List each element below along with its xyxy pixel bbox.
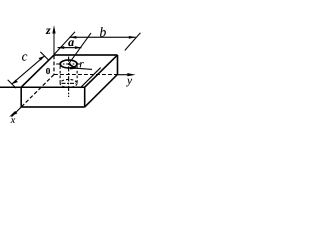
hole hidden left side [59,66,61,83]
dimension a right arrowhead [75,46,82,49]
block bottom-right edge [85,74,118,107]
block back-top edge [54,54,118,56]
svg-text:a: a [68,35,74,49]
dimension c line [12,56,45,84]
radius r leader line [69,64,76,68]
dimension a left arrowhead [58,46,65,49]
block back-right vertical edge [117,55,119,74]
svg-text:y: y [126,75,133,87]
x-axis hidden segment (bottom-left edge) [21,75,54,108]
diagonal line near right face [80,68,100,88]
z-axis arrowhead [52,26,55,34]
dimension c lower arrowhead [12,80,18,84]
hole bottom horizontal center line [62,82,77,84]
z-axis solid shaft [53,31,55,55]
block top-right edge [85,55,118,87]
svg-text:z: z [45,23,51,37]
svg-text:c: c [22,48,28,63]
svg-text:b: b [100,25,107,40]
hole vertical center line [68,57,70,97]
svg-text:0: 0 [46,66,51,76]
y-axis solid shaft [118,74,131,76]
dimension c upper arrowhead [39,56,45,61]
hole hidden right side [76,66,78,83]
hole hidden bottom ellipse [60,79,77,87]
block top-left edge [21,55,54,87]
radius r arrowhead [70,67,77,70]
dimension c bottom extension tick [8,80,16,88]
dimension b line [69,36,135,38]
dimension a line [58,47,82,49]
y-axis hidden segment (back-bottom edge) [54,74,118,76]
dimension b right extension line [125,33,141,51]
block front-right vertical edge [84,87,86,107]
block front-top edge (extends to left border) [0,86,85,88]
svg-text:x: x [10,115,16,126]
radius r leader tail [76,68,92,69]
hole top ellipse [60,60,77,68]
hole horizontal center line [56,63,80,65]
svg-text:r: r [79,58,84,70]
block front-left vertical edge [20,87,22,107]
x-axis solid shaft [12,107,22,117]
x-axis arrowhead [9,111,17,117]
dimension c top extension tick [40,52,48,60]
dimension a extension line from corner [54,32,75,55]
dimension a extension line from hole center [69,33,91,64]
dimension b left arrowhead [69,36,76,39]
z-axis hidden segment (back-left vertical edge) [53,56,55,75]
y-axis arrowhead [127,73,135,76]
dimension b right arrowhead [129,36,136,39]
block front-bottom edge [21,106,84,108]
